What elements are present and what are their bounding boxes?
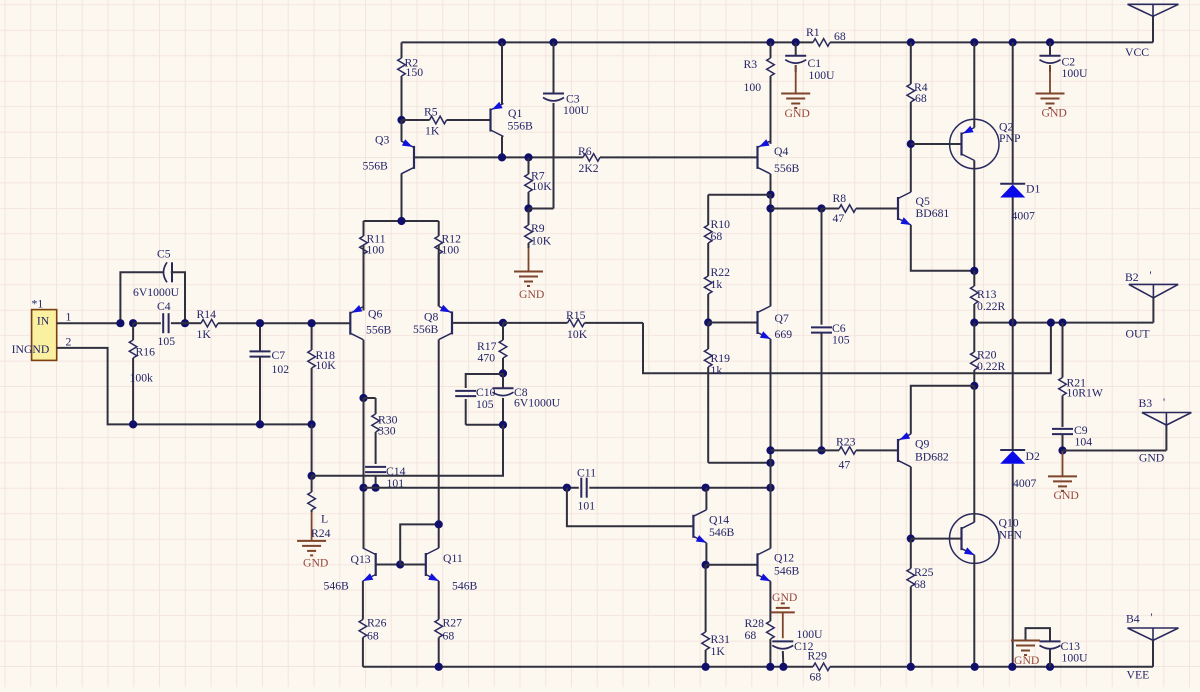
value 0.22R (R13) <box>977 300 1005 313</box>
svg-text:68: 68 <box>711 230 723 243</box>
svg-text:VCC: VCC <box>1125 46 1149 59</box>
svg-text:6V1000U: 6V1000U <box>133 286 180 299</box>
svg-text:GND: GND <box>519 288 544 301</box>
transistor Q6 <box>350 305 363 340</box>
junction (C7 top) <box>256 319 264 327</box>
junction (Q14 collector) <box>702 484 710 492</box>
wire Q5 collector up <box>910 144 912 192</box>
svg-text:Q6: Q6 <box>368 308 382 321</box>
label R20 <box>977 349 997 362</box>
value 100 (R12) <box>442 244 460 257</box>
junction (Q11 collector tie) <box>435 520 443 528</box>
label C14 <box>386 465 406 478</box>
svg-text:0.22R: 0.22R <box>977 360 1005 373</box>
junction (Q14 emitter / R31 / Q12 base) <box>702 561 710 569</box>
value 0.22R (R20) <box>977 360 1005 373</box>
junction (D2 / VEE) <box>1008 663 1016 671</box>
label R6 <box>578 145 592 158</box>
label C10 <box>476 386 496 399</box>
connector B2 <box>1129 284 1178 297</box>
junction (Q6 collector / R30) <box>359 394 367 402</box>
resistor R28 <box>767 581 775 667</box>
value 68 (R26) <box>367 630 379 643</box>
label C4 <box>157 300 171 313</box>
wire Q5 emitter down <box>911 225 975 271</box>
svg-text:GND: GND <box>772 591 797 604</box>
svg-text:R24: R24 <box>311 527 331 540</box>
label R3 <box>744 58 758 71</box>
svg-text:C7: C7 <box>272 349 286 362</box>
label C3 <box>566 93 580 106</box>
svg-text:NPN: NPN <box>999 529 1023 542</box>
svg-text:1K: 1K <box>711 645 726 658</box>
transistor Q2 <box>950 119 999 168</box>
resistor R20 <box>971 323 979 386</box>
wire Q10 base <box>911 538 962 540</box>
value 68 (R25) <box>914 578 926 591</box>
svg-text:B4: B4 <box>1126 613 1140 626</box>
transistor Q5 <box>898 192 911 225</box>
svg-text:R29: R29 <box>808 650 828 663</box>
label R2 <box>405 57 419 70</box>
resistor R27 <box>435 581 443 667</box>
wire Q8 collector down <box>438 339 440 548</box>
value 546B (Q12) <box>774 565 800 578</box>
resistor R15 <box>503 319 643 327</box>
value 10K (R7) <box>532 180 553 193</box>
capacitor C13 <box>1026 628 1061 667</box>
value 556B (Q6) <box>366 324 392 337</box>
wire line B <box>364 487 771 489</box>
svg-text:VEE: VEE <box>1127 669 1150 682</box>
wire Q8 emitter up <box>438 245 440 306</box>
label B4 <box>1126 613 1140 626</box>
value 2K2 (R6) <box>579 162 599 175</box>
junction (R4 / VCC) <box>907 38 915 46</box>
svg-text:68: 68 <box>810 671 822 684</box>
svg-text:BD682: BD682 <box>915 451 949 464</box>
svg-text:GND: GND <box>1054 489 1079 502</box>
wire Q7 base <box>708 322 757 324</box>
value 100U (C1) <box>809 69 836 82</box>
transistor Q3 <box>401 139 414 174</box>
label Q12 <box>774 552 794 565</box>
label Q1 <box>508 107 522 120</box>
junction (D1 / VCC) <box>1009 38 1017 46</box>
resistor R12 <box>435 221 443 306</box>
svg-text:100: 100 <box>442 244 460 257</box>
value PNP (Q2) <box>999 132 1021 145</box>
wire C3 bottom link <box>529 208 554 210</box>
tick (B4) <box>1151 611 1153 624</box>
label IN <box>37 315 50 328</box>
value 546B (Q11) <box>452 580 478 593</box>
svg-text:Q1: Q1 <box>508 107 522 120</box>
svg-text:R23: R23 <box>836 436 856 449</box>
ground (C1) <box>781 65 810 108</box>
junction (feedback / R24) <box>308 472 316 480</box>
resistor R26 <box>359 581 367 667</box>
resistor R13 <box>971 271 979 323</box>
label R18 <box>316 349 336 362</box>
label R19 <box>711 352 731 365</box>
net label VCC <box>1125 46 1149 59</box>
connector B4 <box>1128 628 1179 640</box>
ground (R24) <box>297 512 326 555</box>
svg-text:100k: 100k <box>130 372 154 385</box>
value 68 (R1) <box>834 30 846 43</box>
wire Q10 collector up <box>973 386 975 522</box>
value 100U (C13) <box>1062 652 1089 665</box>
svg-text:GND: GND <box>303 557 328 570</box>
label R12 <box>442 233 462 246</box>
label R23 <box>836 436 856 449</box>
label Q8 <box>424 311 438 324</box>
value 101 (C11) <box>578 500 596 513</box>
ground (R9) <box>514 248 543 286</box>
resistor R22 <box>704 260 712 323</box>
svg-text:4007: 4007 <box>1012 210 1036 223</box>
svg-text:R27: R27 <box>443 617 463 630</box>
junction (Q1 emitter / VCC) <box>498 38 506 46</box>
svg-text:68: 68 <box>443 630 455 643</box>
label Q5 <box>916 195 930 208</box>
resistor R7 <box>525 157 533 208</box>
label R9 <box>531 222 545 235</box>
value 104 (C9) <box>1075 436 1093 449</box>
wire Q14 base <box>567 488 694 527</box>
svg-text:Q3: Q3 <box>375 134 389 147</box>
junction (R28 / VEE) <box>766 663 774 671</box>
svg-text:10K: 10K <box>316 359 337 372</box>
wire R14 to Q6 base <box>260 322 350 324</box>
svg-text:100: 100 <box>367 244 385 257</box>
transistor Q14 <box>693 510 706 543</box>
label B2 <box>1125 271 1139 284</box>
label Q7 <box>775 312 789 325</box>
label R22 <box>711 266 731 279</box>
value 100U (C12) <box>797 628 824 641</box>
net label OUT <box>1126 328 1150 341</box>
junction (Q3 collector / tail) <box>397 217 405 225</box>
label Q11 <box>443 552 463 565</box>
value 556B (Q4) <box>774 162 800 175</box>
wire Q1 emitter to VCC <box>501 42 503 104</box>
capacitor C14 <box>365 467 386 488</box>
tick (B3) <box>1163 396 1165 409</box>
junction (C5 left / pin1) <box>116 319 124 327</box>
junction (R13 / OUT) <box>970 319 978 327</box>
value 10K (R15) <box>567 328 588 341</box>
svg-text:330: 330 <box>378 425 396 438</box>
value 68 (R4) <box>915 92 927 105</box>
value 102 (C7) <box>272 363 290 376</box>
diode D1 <box>1000 42 1025 322</box>
label R16 <box>136 346 156 359</box>
wire R8 left <box>771 208 822 210</box>
capacitor C7 <box>250 323 271 424</box>
label GND (C13) <box>1014 654 1039 667</box>
capacitor C11 <box>581 478 586 498</box>
junction (Q7 base) <box>704 318 712 326</box>
svg-text:GND: GND <box>785 107 810 120</box>
junction (R27 / VEE) <box>435 663 443 671</box>
value 100U (C2) <box>1062 67 1089 80</box>
label C2 <box>1062 56 1076 69</box>
label Q14 <box>709 514 729 527</box>
resistor R1 <box>813 39 830 47</box>
svg-text:100U: 100U <box>563 104 590 117</box>
junction (R25 / VEE) <box>907 663 915 671</box>
svg-text:546B: 546B <box>709 526 735 539</box>
wire R19 bottom link <box>708 462 770 464</box>
svg-text:104: 104 <box>1075 436 1093 449</box>
label C11 <box>577 467 596 480</box>
svg-text:101: 101 <box>578 500 596 513</box>
svg-text:68: 68 <box>834 30 846 43</box>
transistor Q10 <box>950 514 1000 564</box>
wire VCC rail <box>402 16 1154 42</box>
value 68 (R29) <box>810 671 822 684</box>
ground (C2) <box>1036 65 1065 108</box>
junction (R16 top) <box>129 319 137 327</box>
net label GND (B3) <box>1139 452 1164 465</box>
label D1 <box>1026 183 1040 196</box>
label R31 <box>711 633 731 646</box>
label R26 <box>367 617 387 630</box>
label GND (C2) <box>1042 107 1067 120</box>
svg-text:556B: 556B <box>366 324 392 337</box>
svg-text:556B: 556B <box>508 120 534 133</box>
wire R6 to Q4 base <box>600 156 758 158</box>
svg-text:100U: 100U <box>1062 652 1089 665</box>
wire tail node <box>364 220 439 222</box>
resistor R19 <box>704 323 712 463</box>
wire Q13 base <box>376 564 401 566</box>
junction (Q8 base / R17 / R15) <box>499 319 507 327</box>
wire Q14 emitter down <box>705 543 707 565</box>
svg-text:68: 68 <box>745 629 757 642</box>
pin 2 wire <box>57 348 312 425</box>
svg-text:1k: 1k <box>711 364 723 377</box>
svg-text:2: 2 <box>66 336 72 349</box>
label Q6 <box>368 308 382 321</box>
value 105 (C10) <box>476 398 494 411</box>
svg-text:102: 102 <box>272 363 290 376</box>
wire feedback shunt down <box>312 425 503 476</box>
label Q4 <box>774 145 788 158</box>
wire Q1 collector down <box>501 137 503 158</box>
label *1 <box>32 298 44 311</box>
junction (R20 bottom / Q9 emitter) <box>970 382 978 390</box>
value 1K (R31) <box>711 645 726 658</box>
svg-text:556B: 556B <box>774 162 800 175</box>
value 4007 (D1) <box>1012 210 1036 223</box>
svg-text:546B: 546B <box>774 565 800 578</box>
value 556B (Q8) <box>413 323 439 336</box>
wire R15 to OUT <box>643 323 1051 374</box>
svg-text:*1: *1 <box>32 298 44 311</box>
label R11 <box>367 233 386 246</box>
junction (R8 tee) <box>766 204 774 212</box>
svg-text:556B: 556B <box>363 160 389 173</box>
label D2 <box>1026 450 1040 463</box>
wire Q12 collector up <box>770 488 772 549</box>
value 1k (R22) <box>711 278 723 291</box>
junction (C1 / VCC) <box>792 38 800 46</box>
junction (R18 bottom / gnd return) <box>308 420 316 428</box>
label R29 <box>808 650 828 663</box>
junction (R16 bottom) <box>129 420 137 428</box>
wire Q10 emitter down <box>973 555 975 667</box>
wire R18-R24 link <box>311 424 313 475</box>
svg-text:IN: IN <box>37 315 50 328</box>
svg-text:B2: B2 <box>1125 271 1139 284</box>
resistor R17 <box>499 323 507 374</box>
svg-text:Q11: Q11 <box>443 552 463 565</box>
value 105 (C4) <box>158 335 176 348</box>
value 68 (R27) <box>443 630 455 643</box>
label R28 <box>745 617 765 630</box>
svg-text:C5: C5 <box>157 248 171 261</box>
svg-text:Q4: Q4 <box>774 145 788 158</box>
wire VEE rail <box>363 640 1153 666</box>
svg-text:B3: B3 <box>1139 397 1153 410</box>
resistor R10 <box>704 195 712 260</box>
wire Q12 base <box>706 564 758 566</box>
transistor Q11 <box>426 548 439 581</box>
junction (R19 link) <box>766 459 774 467</box>
svg-text:1K: 1K <box>197 328 212 341</box>
label R30 <box>378 414 398 427</box>
svg-text:PNP: PNP <box>999 132 1021 145</box>
connector J1 (IN) <box>32 310 57 361</box>
junction (R23 left) <box>766 446 774 454</box>
junction (C6 bottom) <box>817 446 825 454</box>
ground (C13) <box>1011 641 1040 656</box>
svg-text:': ' <box>1150 269 1152 282</box>
capacitor C5 <box>120 262 185 323</box>
capacitor C4 <box>133 313 185 333</box>
wire Q11 base <box>400 564 426 566</box>
svg-text:': ' <box>1163 396 1165 409</box>
transistor Q1 <box>491 102 504 137</box>
value NPN (Q10) <box>999 529 1023 542</box>
wire Q8 base right <box>452 322 503 324</box>
junction (line B left) <box>359 484 367 492</box>
pin number 1 <box>66 311 72 324</box>
svg-text:C4: C4 <box>157 300 171 313</box>
label GND (C12) <box>772 591 797 604</box>
label GND (R24) <box>303 557 328 570</box>
resistor R6 <box>583 154 600 162</box>
svg-text:546B: 546B <box>452 580 478 593</box>
junction (R17 bottom) <box>499 369 507 377</box>
junction (C5 right / C4) <box>181 319 189 327</box>
junction (Q2 emitter / VCC) <box>970 38 978 46</box>
svg-text:Q7: Q7 <box>775 312 789 325</box>
junction (Q14 base tee) <box>563 484 571 492</box>
junction (R18 top) <box>308 319 316 327</box>
junction (C6 top) <box>817 204 825 212</box>
label C6 <box>832 322 846 335</box>
resistor R24 <box>308 476 316 512</box>
junction (R3 / VCC) <box>766 38 774 46</box>
label Q9 <box>915 438 929 451</box>
transistor Q8 <box>439 305 452 340</box>
ground (C12, inverted) <box>771 603 795 612</box>
label C1 <box>808 57 822 70</box>
transistor Q4 <box>758 139 771 174</box>
resistor R11 <box>360 221 368 311</box>
label R25 <box>914 566 934 579</box>
junction (C9 / B3 / gnd) <box>1058 446 1066 454</box>
wire Q6 emitter up <box>363 245 365 311</box>
value 6V1000U (C8) <box>514 397 561 410</box>
svg-text:L: L <box>321 513 328 526</box>
wire Q3 collector down <box>401 174 403 221</box>
junction (R31 / VEE) <box>702 663 710 671</box>
label Q13 <box>351 553 371 566</box>
svg-text:R1: R1 <box>806 26 820 39</box>
wire Q2 base <box>911 143 962 145</box>
pin 1 wire <box>57 322 121 324</box>
svg-text:1K: 1K <box>425 125 440 138</box>
ground (C9) <box>1048 451 1077 491</box>
svg-text:BD681: BD681 <box>916 207 950 220</box>
capacitor C6 <box>811 209 832 451</box>
power connector VCC <box>1128 4 1179 16</box>
value 68 (R10) <box>711 230 723 243</box>
value 1k (R19) <box>711 364 723 377</box>
diode D2 <box>1000 323 1025 667</box>
transistor Q9 <box>898 432 911 467</box>
svg-text:105: 105 <box>158 335 176 348</box>
resistor R3 <box>767 42 775 143</box>
svg-text:OUT: OUT <box>1126 328 1150 341</box>
junction (C13 / VEE) <box>1046 663 1054 671</box>
svg-text:10K: 10K <box>532 180 553 193</box>
svg-text:10R1W: 10R1W <box>1067 387 1104 400</box>
svg-text:150: 150 <box>406 66 424 79</box>
wire Q6 collector down <box>363 340 365 398</box>
junction (R4 / Q2 base / Q5 collector) <box>907 140 915 148</box>
capacitor C10 <box>455 391 503 425</box>
label C8 <box>514 386 528 399</box>
junction (Q9 collector / Q10 base / R25) <box>907 535 915 543</box>
wire Q14 collector up <box>705 488 707 510</box>
svg-text:R16: R16 <box>136 346 156 359</box>
svg-text:R14: R14 <box>197 308 217 321</box>
wire to B3 <box>1063 425 1167 450</box>
svg-text:546B: 546B <box>324 580 350 593</box>
svg-text:R5: R5 <box>424 106 438 119</box>
resistor R31 <box>702 565 710 667</box>
value 47 (R8) <box>833 212 845 225</box>
svg-text:105: 105 <box>832 334 850 347</box>
resistor R30 <box>364 398 380 464</box>
wire Q6-Q13 column <box>363 398 365 548</box>
value 47 (R23) <box>839 459 851 472</box>
value 105 (C6) <box>832 334 850 347</box>
svg-text:': ' <box>1151 611 1153 624</box>
value 10K (R9) <box>531 235 552 248</box>
junction (Q10 emitter / VEE) <box>971 663 979 671</box>
svg-text:Q13: Q13 <box>351 553 371 566</box>
resistor R25 <box>907 539 915 667</box>
svg-text:Q14: Q14 <box>709 514 729 527</box>
svg-text:6V1000U: 6V1000U <box>514 397 561 410</box>
